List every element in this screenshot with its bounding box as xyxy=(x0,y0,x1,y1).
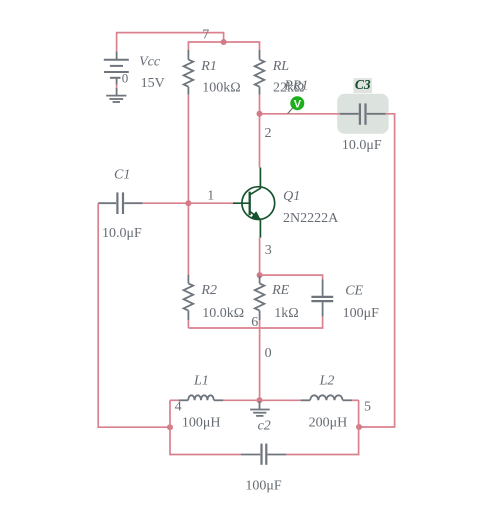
svg-text:c2: c2 xyxy=(258,418,271,433)
wire inner rect left side xyxy=(170,400,241,454)
wire RL bottom to node 2 xyxy=(259,95,261,168)
capacitor C1 xyxy=(98,192,142,214)
probe V circle xyxy=(290,96,304,110)
svg-text:PR1: PR1 xyxy=(283,79,308,94)
wire RE bottom through rail down to ground junction xyxy=(259,320,261,400)
junction node 3 xyxy=(257,272,263,278)
svg-text:4: 4 xyxy=(175,400,182,415)
svg-text:10.0μF: 10.0μF xyxy=(342,138,382,153)
capacitor CE xyxy=(311,280,333,317)
probe V pointer xyxy=(288,108,293,113)
svg-text:2: 2 xyxy=(265,126,272,141)
svg-text:Vcc: Vcc xyxy=(139,55,161,70)
svg-text:C3: C3 xyxy=(355,77,371,92)
ground (center) xyxy=(250,400,270,416)
svg-text:R1: R1 xyxy=(200,59,217,74)
resistor R2 xyxy=(184,275,194,320)
svg-text:100kΩ: 100kΩ xyxy=(202,80,240,95)
ground (battery) xyxy=(106,88,126,102)
svg-text:7: 7 xyxy=(202,28,209,43)
wire node 2 to C3 xyxy=(260,113,340,115)
svg-text:100μF: 100μF xyxy=(245,478,282,493)
svg-text:15V: 15V xyxy=(141,76,165,91)
svg-text:200μH: 200μH xyxy=(309,415,348,430)
junction node 2 xyxy=(257,111,263,117)
wire R1 to RL top connector xyxy=(188,42,259,50)
wire C3 right down to bottom right corner xyxy=(359,114,395,427)
wire C1 to node 1 xyxy=(143,202,189,204)
svg-text:R2: R2 xyxy=(200,283,217,298)
highlight box C3 xyxy=(337,78,388,134)
svg-text:100μF: 100μF xyxy=(343,306,380,321)
wire emitter to node 3 xyxy=(259,238,261,276)
junction bottom right xyxy=(356,424,362,430)
svg-text:100μH: 100μH xyxy=(182,415,221,430)
svg-text:V: V xyxy=(294,99,302,111)
resistor R1 xyxy=(184,50,194,95)
wire battery to ground xyxy=(116,85,118,88)
capacitor c2 (bottom) xyxy=(241,444,287,465)
junction ground node xyxy=(257,397,263,403)
svg-text:RE: RE xyxy=(271,283,290,298)
svg-text:5: 5 xyxy=(364,400,371,415)
svg-text:C1: C1 xyxy=(114,167,130,182)
wire L2 stub to right corner xyxy=(352,399,358,401)
inductor L1 xyxy=(179,395,224,400)
wire R1 bottom through node 1 to R2 xyxy=(187,95,189,275)
capacitor C3 xyxy=(340,103,386,124)
svg-text:10.0kΩ: 10.0kΩ xyxy=(202,306,244,321)
inductor L2 xyxy=(301,395,353,400)
svg-text:CE: CE xyxy=(345,283,363,298)
battery Vcc xyxy=(104,51,129,84)
junction node 7 xyxy=(221,39,227,45)
svg-text:3: 3 xyxy=(265,243,272,258)
wire R2 bottom to bottom rail xyxy=(187,320,189,328)
resistor RL xyxy=(255,50,265,95)
resistor RE xyxy=(255,275,265,320)
svg-text:0: 0 xyxy=(122,71,129,86)
svg-text:L2: L2 xyxy=(319,374,335,389)
junction node 1 xyxy=(185,200,191,206)
wire L1 to ground junction to L2 xyxy=(223,399,300,401)
svg-text:0: 0 xyxy=(265,346,272,361)
svg-text:RL: RL xyxy=(272,59,290,74)
svg-text:1kΩ: 1kΩ xyxy=(274,306,298,321)
wire battery top to node 7 xyxy=(117,33,224,52)
junction bottom left xyxy=(167,424,173,430)
transistor Q1 xyxy=(233,168,275,238)
wire node 1 to base xyxy=(188,202,233,204)
svg-text:10.0μF: 10.0μF xyxy=(102,226,142,241)
wire inner rect top left stub xyxy=(170,399,179,401)
wire C1 left down to bottom left junction xyxy=(98,203,170,427)
svg-text:Q1: Q1 xyxy=(283,189,300,204)
svg-text:L1: L1 xyxy=(193,374,209,389)
svg-text:1: 1 xyxy=(207,189,214,204)
wire node 3 to CE xyxy=(260,275,323,279)
svg-text:2N2222A: 2N2222A xyxy=(283,211,339,226)
wire inner rect right side xyxy=(286,400,358,454)
wire CE bottom to bottom rail xyxy=(188,317,322,328)
